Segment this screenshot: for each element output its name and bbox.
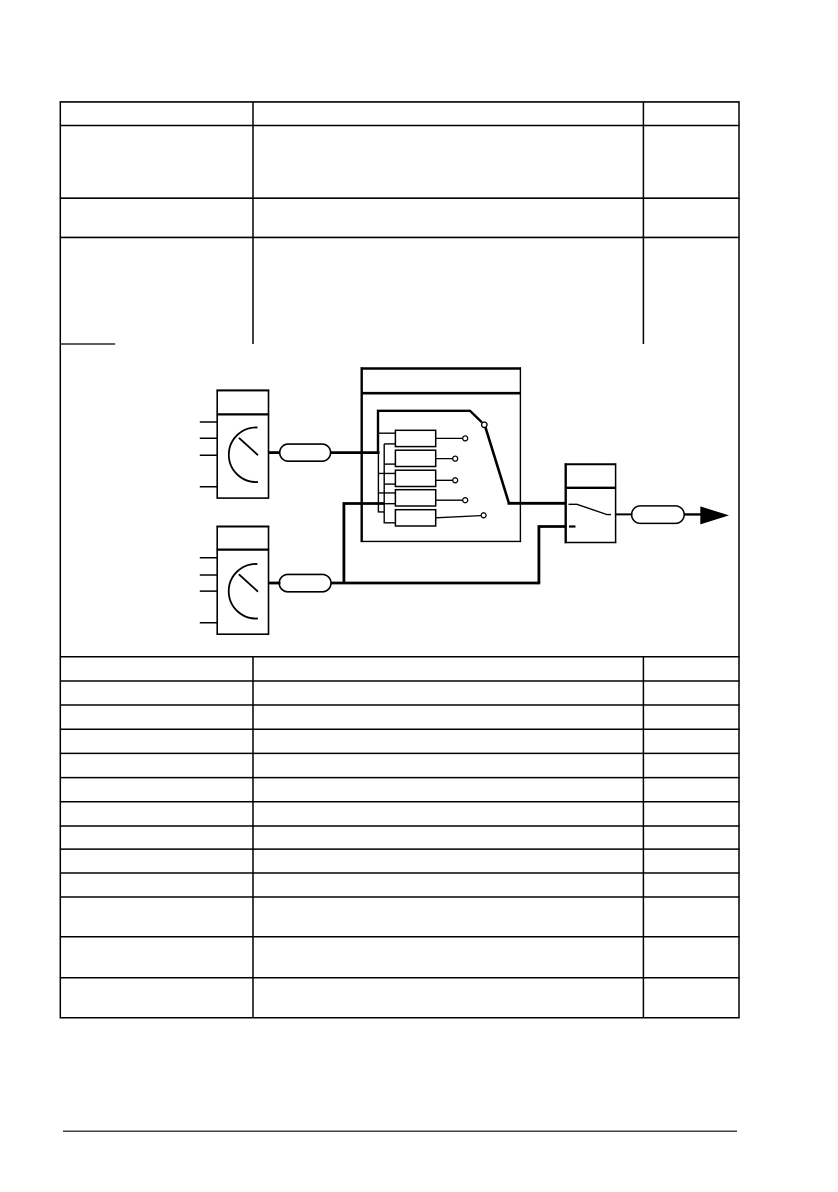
switch arm xyxy=(486,428,509,503)
table row line xyxy=(60,896,740,898)
wire M1 to capsule P1 xyxy=(269,451,281,454)
switch symbol inside min block xyxy=(569,504,612,514)
ladder rung item2 lower xyxy=(384,463,395,465)
table row line xyxy=(60,752,740,754)
minus mark xyxy=(569,525,576,527)
table row line xyxy=(60,977,740,979)
wire capsule P1 to selector bus xyxy=(331,451,380,454)
capsule P2 xyxy=(279,574,331,591)
table row line xyxy=(60,777,740,779)
min block U2 xyxy=(565,463,617,543)
ladder rung item3 upper xyxy=(378,472,395,474)
wire branch up to min block input xyxy=(539,527,565,584)
table column divider 2 upper xyxy=(642,102,644,344)
contact circle 2 xyxy=(453,456,458,461)
wire capsule P3 to arrow xyxy=(684,513,702,515)
table row line xyxy=(60,848,740,850)
table top border xyxy=(60,101,740,103)
selector bus V1 thin continuation xyxy=(378,453,384,512)
short rule left xyxy=(60,343,115,345)
contact lead 4 xyxy=(436,499,463,501)
table row line xyxy=(60,704,740,706)
table outer right border xyxy=(738,102,740,1018)
table row line xyxy=(60,825,740,827)
contact lead 1 xyxy=(436,437,463,439)
source item rect 5 xyxy=(395,510,435,526)
table column divider 2 lower xyxy=(642,657,644,1018)
table column divider 1 upper xyxy=(252,102,254,344)
selector input bus thick path xyxy=(378,411,482,453)
ladder vertical V2 xyxy=(384,444,395,523)
table row line xyxy=(60,801,740,803)
wire selector output to min block xyxy=(508,502,565,505)
ladder rung item4 upper xyxy=(378,492,395,494)
source item rect 2 xyxy=(395,450,435,466)
table outer left border xyxy=(59,102,61,1018)
capsule P3 xyxy=(632,506,685,524)
contact lead 3 xyxy=(436,479,453,481)
table row line xyxy=(60,125,740,127)
table row line xyxy=(60,936,740,938)
wire M2 to capsule P2 xyxy=(269,582,281,585)
ladder rung item1 upper xyxy=(378,432,395,434)
table row line xyxy=(60,680,740,682)
wire capsule P2 run right xyxy=(331,582,540,585)
capsule P1 xyxy=(280,444,331,461)
ladder rung item3 lower xyxy=(384,483,395,485)
source item rect 3 xyxy=(395,470,435,486)
switch pivot circle xyxy=(482,422,487,427)
selector block U1 outer box xyxy=(361,367,522,542)
contact circle 1 xyxy=(463,436,468,441)
contact circle 3 xyxy=(453,478,458,483)
table row line xyxy=(60,236,740,238)
contact circle 4 xyxy=(463,498,468,503)
wire branch up to selector lower input xyxy=(344,504,384,584)
ladder rung item4 lower xyxy=(384,503,395,505)
contact lead 5 xyxy=(436,516,481,518)
contact lead 2 xyxy=(436,458,453,460)
table row line xyxy=(60,728,740,730)
table bottom border xyxy=(60,1017,740,1019)
table row line xyxy=(60,656,740,658)
footer rule xyxy=(63,1130,737,1132)
source item rect 1 xyxy=(395,430,435,446)
wire min block to capsule P3 xyxy=(616,513,633,515)
table column divider 1 lower xyxy=(252,657,254,1018)
table row line xyxy=(60,197,740,199)
meter block M1 xyxy=(200,390,269,498)
output arrowhead xyxy=(700,506,729,524)
table row line xyxy=(60,872,740,874)
ladder rung item1 lower xyxy=(384,443,395,445)
source item rect 4 xyxy=(395,490,435,506)
meter block M2 xyxy=(200,527,269,635)
contact circle 5 xyxy=(481,513,486,518)
